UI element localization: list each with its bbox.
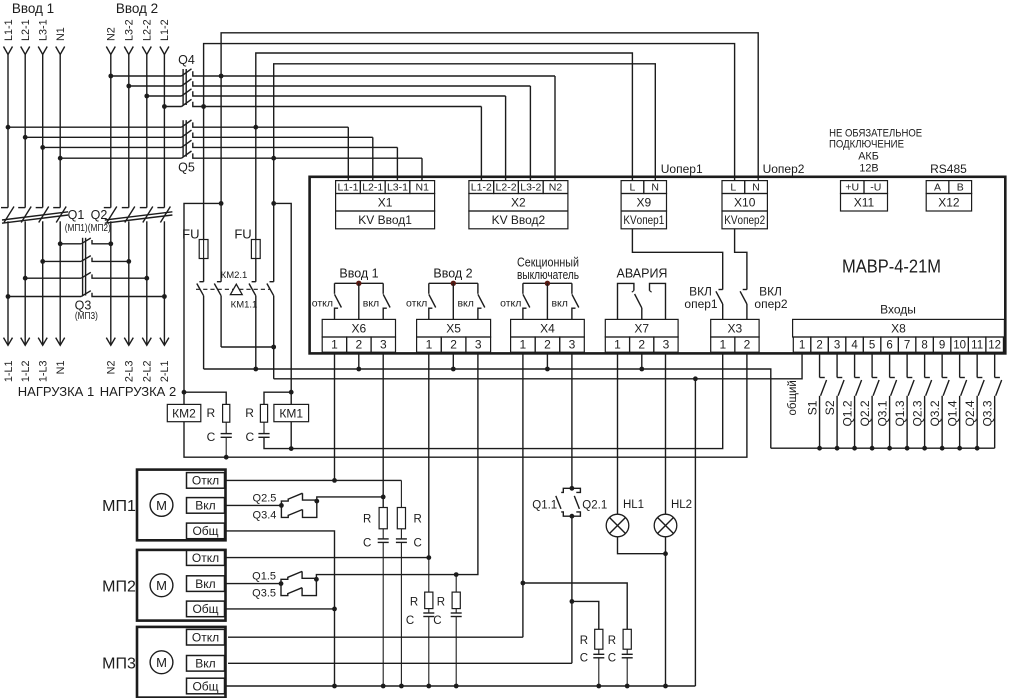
svg-text:Откл: Откл	[192, 551, 219, 565]
switch group top bar	[335, 282, 384, 284]
svg-text:1: 1	[719, 337, 726, 351]
svg-text:C: C	[406, 615, 414, 627]
wire Q2.5 output to X6-3	[317, 497, 383, 501]
terminal X7	[605, 319, 678, 337]
switch Q5 pole 2	[25, 136, 181, 138]
svg-text:KVопер1: KVопер1	[623, 213, 664, 227]
wire KM1.1b down to common	[273, 296, 275, 379]
svg-text:выключатель: выключатель	[517, 268, 579, 282]
terminal X1 (KV Ввод1)	[336, 181, 361, 194]
contact ВКЛ опер1	[722, 289, 724, 291]
load arrow 1-L3	[38, 338, 47, 346]
svg-text:C: C	[580, 653, 588, 665]
contact откл	[428, 283, 430, 294]
wire МП1 Вкл	[225, 504, 282, 506]
svg-text:Uопер1: Uопер1	[661, 162, 703, 176]
node KM1 coil top	[289, 390, 294, 395]
svg-text:R: R	[608, 635, 616, 647]
svg-text:М: М	[156, 578, 167, 593]
svg-text:Ввод 2: Ввод 2	[433, 267, 472, 281]
lamp HL2	[665, 353, 667, 514]
wire F branch to KM1 coil	[274, 203, 292, 392]
svg-text:11: 11	[971, 339, 983, 351]
terminal X2 (KV Ввод2)	[469, 181, 494, 194]
svg-text:R: R	[414, 514, 422, 526]
svg-text:HL1: HL1	[623, 499, 644, 511]
load arrow 2-L3	[124, 338, 133, 346]
switch Q4 gang bar	[182, 69, 184, 105]
svg-text:ПОДКЛЮЧЕНИЕ: ПОДКЛЮЧЕНИЕ	[829, 139, 904, 151]
motor symbol M (МП2)	[150, 574, 173, 597]
terminal X3	[711, 319, 759, 337]
wire Q4 row3 drop to X2	[505, 96, 507, 181]
terminal X8	[793, 319, 1005, 337]
svg-text:X3: X3	[728, 322, 743, 336]
svg-text:1: 1	[520, 337, 527, 351]
svg-text:АВАРИЯ: АВАРИЯ	[617, 267, 668, 281]
wire load feeder x=25.2	[24, 221, 26, 345]
feeder terminal arrow N1	[56, 47, 65, 55]
svg-text:S2: S2	[823, 400, 837, 415]
wire feeder N1 vertical	[59, 55, 61, 208]
svg-text:АКБ: АКБ	[858, 151, 879, 163]
wire load feeder x=110.8	[110, 221, 112, 345]
node switch common (red)	[545, 281, 550, 286]
svg-text:C: C	[245, 430, 254, 444]
feeder terminal arrow L1-1	[4, 47, 13, 55]
mechanical interlock dashed line	[196, 288, 270, 290]
svg-text:вкл: вкл	[457, 297, 473, 309]
svg-text:Uопер2: Uопер2	[763, 162, 805, 176]
terminal МП2 Вкл	[187, 576, 225, 592]
contact ВКЛ опер2	[746, 289, 748, 291]
wire X4-1 to МП3 Откл	[522, 353, 524, 637]
svg-text:5: 5	[869, 339, 875, 351]
switch Q3 pole 1	[60, 243, 81, 245]
svg-text:4: 4	[851, 339, 858, 351]
contact input Q1.2	[854, 353, 856, 377]
svg-text:X6: X6	[352, 322, 367, 336]
svg-text:Q1.4: Q1.4	[945, 400, 959, 426]
svg-text:КМ2: КМ2	[172, 406, 196, 420]
svg-text:2: 2	[450, 337, 457, 351]
wire МП2 Откл to X5-1	[225, 557, 429, 559]
svg-text:3: 3	[663, 337, 670, 351]
svg-text:1: 1	[426, 337, 433, 351]
wire C vertical (L1-1 to FU2)	[255, 127, 257, 239]
svg-text:KV Ввод1: KV Ввод1	[358, 213, 412, 227]
svg-text:2: 2	[816, 339, 822, 351]
switch Q3 gang bar	[82, 238, 84, 296]
terminal X9 (KVопер1)	[621, 181, 644, 194]
svg-text:2: 2	[744, 337, 751, 351]
node switch common (red)	[356, 281, 361, 286]
controller MAVR-4-21M outline	[310, 177, 1006, 354]
wire feeder N2 vertical	[110, 55, 112, 208]
load arrow N1	[56, 338, 65, 346]
svg-text:Q2.4: Q2.4	[963, 400, 977, 426]
svg-text:Ввод 2: Ввод 2	[116, 1, 158, 16]
wire Q1.5 output to X5-3	[316, 353, 478, 579]
svg-text:Q3.1: Q3.1	[875, 400, 889, 426]
svg-text:Q1.5: Q1.5	[252, 571, 276, 583]
node N1 tap to Q5 row4	[58, 156, 63, 161]
wire МП2 Общ	[225, 608, 335, 610]
svg-text:3: 3	[475, 337, 482, 351]
wire input common bus	[771, 447, 995, 449]
wire KM2.1a to control bus	[203, 296, 205, 369]
svg-text:L: L	[630, 181, 636, 193]
svg-text:12: 12	[988, 339, 1001, 351]
svg-text:1: 1	[614, 337, 621, 351]
wire D vertical (N1 to KM1.1b)	[273, 158, 275, 203]
svg-text:X1: X1	[378, 196, 393, 210]
node L2-2 tap to Q4 row3	[144, 94, 149, 99]
svg-text:Q3.3: Q3.3	[980, 400, 994, 426]
wire KM1 R branch	[264, 392, 291, 404]
wire Q5 row3 drop to X1	[396, 147, 398, 180]
switch Q5 gang bar	[182, 120, 184, 157]
node L3-2 tap to Q4 row2	[126, 84, 131, 89]
svg-text:B: B	[957, 181, 964, 193]
terminal МП3 Откл	[187, 629, 225, 645]
svg-text:X8: X8	[891, 322, 906, 336]
svg-text:N1: N1	[55, 361, 67, 375]
motor drive block МП2	[137, 550, 226, 621]
node X4-2 on supply bus	[545, 367, 550, 372]
feeder terminal arrow L1-2	[160, 47, 169, 55]
wire Q4 row1 drop to X2	[554, 76, 556, 181]
wire X4-3 to Q1.1/Q2.1	[571, 353, 573, 488]
svg-text:N1: N1	[416, 181, 430, 193]
terminal X12 (RS485)	[926, 181, 949, 194]
svg-text:12В: 12В	[859, 162, 878, 174]
svg-text:МП1: МП1	[102, 498, 136, 515]
contact KM2.1 pole 2	[220, 281, 222, 283]
wire feeder L1-1 vertical	[7, 55, 9, 208]
terminal МП3 Вкл	[187, 656, 225, 672]
svg-text:X7: X7	[634, 322, 649, 336]
motor drive block МП3	[137, 627, 226, 698]
svg-text:Q3.4: Q3.4	[253, 509, 277, 521]
contact input S2	[836, 353, 838, 377]
mechanical interlock triangle	[230, 284, 242, 294]
contact АВАРИЯ changeover	[618, 283, 634, 319]
wire Q5 row2 drop to X1	[372, 137, 374, 180]
svg-text:N2: N2	[549, 181, 563, 193]
svg-text:10: 10	[953, 339, 966, 351]
node B branch to KM2 coil	[219, 201, 224, 206]
node L2-1 tap to Q5 row2	[23, 135, 28, 140]
wire Q5 row1 drop to X1	[347, 127, 349, 180]
wire bus L1-2 to X10-L	[204, 44, 735, 181]
wire МП1 Откл to X6-1	[225, 479, 402, 481]
wire KM1.1a to control bus	[255, 296, 257, 369]
node X6-2 on supply bus	[356, 367, 361, 372]
svg-text:KV Ввод2: KV Ввод2	[492, 213, 546, 227]
breaker Q1 poles	[1, 207, 8, 209]
resistor R (Q contact snubber 2)	[523, 583, 627, 629]
contact откл	[334, 283, 336, 294]
svg-text:L2-2: L2-2	[142, 19, 154, 41]
node L3-1 tap to Q5 row3	[40, 145, 45, 150]
svg-text:Q1.3: Q1.3	[893, 400, 907, 426]
switch group top bar	[523, 282, 572, 284]
wire Q1.1 bottom down	[571, 516, 573, 663]
node Q5 row4 to wire D	[271, 156, 276, 161]
svg-text:откл: откл	[500, 297, 521, 309]
svg-text:Q4: Q4	[178, 53, 195, 67]
svg-text:L1-1: L1-1	[3, 19, 15, 41]
breaker Q2 poles	[104, 207, 111, 209]
svg-text:Q1.2: Q1.2	[840, 400, 854, 426]
svg-text:L1-2: L1-2	[159, 19, 171, 41]
svg-text:МАВР-4-21М: МАВР-4-21М	[842, 256, 941, 277]
wire A vertical (L1-2 phase to FU1)	[203, 107, 205, 240]
svg-text:KVопер2: KVопер2	[724, 213, 765, 227]
svg-text:2-L1: 2-L1	[159, 361, 171, 383]
svg-text:L3-2: L3-2	[520, 181, 541, 193]
wire control supply bus	[204, 369, 771, 448]
contact KM1.1 pole 1	[255, 281, 257, 283]
svg-text:N2: N2	[106, 361, 118, 375]
svg-text:2: 2	[356, 337, 363, 351]
svg-text:3: 3	[380, 337, 387, 351]
svg-text:X2: X2	[511, 196, 526, 210]
switch Q3 pole 2	[43, 260, 81, 262]
node KM2 coil top	[182, 390, 187, 395]
svg-text:Вкл: Вкл	[195, 657, 215, 671]
coil KM1	[274, 404, 309, 421]
wire МП1 Общ chain	[226, 531, 335, 686]
switch Q4 pole 2	[129, 85, 182, 87]
wire B vertical (N2 to KM2.1b)	[220, 76, 222, 203]
contact input Q2.4	[976, 353, 978, 377]
node Q snubber branch	[570, 599, 575, 604]
svg-text:L2-2: L2-2	[496, 181, 517, 193]
switch Q4 pole 3	[147, 95, 182, 97]
coil KM2	[167, 404, 201, 421]
switch Q4 pole 4	[164, 106, 181, 108]
svg-text:Q2.3: Q2.3	[910, 400, 924, 426]
svg-text:N1: N1	[55, 27, 67, 41]
svg-text:X5: X5	[446, 322, 461, 336]
svg-text:1: 1	[799, 339, 805, 351]
contact вкл	[477, 283, 479, 294]
node X7-2 on supply bus	[639, 367, 644, 372]
svg-text:R: R	[410, 597, 418, 609]
wire HL2 bottom to bus	[665, 537, 667, 686]
svg-text:RS485: RS485	[930, 162, 967, 176]
svg-text:3: 3	[569, 337, 576, 351]
svg-text:R: R	[580, 635, 588, 647]
svg-text:L1-2: L1-2	[471, 181, 492, 193]
node X4-1 snubber branch	[521, 581, 526, 586]
node L1-2 tap to Q4 row4	[162, 104, 167, 109]
svg-text:+U: +U	[845, 181, 859, 193]
svg-text:A: A	[934, 181, 941, 193]
contact вкл	[382, 283, 384, 294]
svg-text:Общ: Общ	[192, 524, 218, 538]
svg-text:L3-2: L3-2	[124, 19, 136, 41]
svg-text:Q1.1: Q1.1	[532, 500, 557, 512]
svg-text:Q2.2: Q2.2	[858, 400, 872, 426]
switch Q2.5/Q3.4	[279, 503, 284, 508]
svg-text:FU: FU	[234, 227, 251, 242]
svg-text:2: 2	[544, 337, 551, 351]
svg-text:C: C	[433, 615, 441, 627]
svg-text:N2: N2	[106, 27, 118, 41]
svg-text:КМ2.1: КМ2.1	[221, 270, 248, 281]
contact input Q1.3	[906, 353, 908, 377]
svg-text:R: R	[206, 406, 215, 420]
svg-text:1-L3: 1-L3	[38, 361, 50, 383]
contact input Q2.3	[924, 353, 926, 377]
svg-text:1: 1	[331, 337, 338, 351]
wire B joins D	[221, 346, 274, 348]
svg-text:L1-1: L1-1	[337, 181, 358, 193]
contact input Q2.2	[871, 353, 873, 377]
svg-text:откл: откл	[406, 297, 427, 309]
svg-text:7: 7	[904, 339, 910, 351]
svg-text:R: R	[245, 406, 254, 420]
svg-text:Откл: Откл	[192, 474, 219, 488]
wire feeder L2-2 vertical	[146, 55, 148, 208]
terminal МП2 Общ	[187, 601, 225, 617]
node Q4 row4 to wire A	[201, 104, 206, 109]
svg-text:КМ1.1: КМ1.1	[231, 299, 258, 310]
svg-text:L3-1: L3-1	[38, 19, 50, 41]
wire Q4 row4 drop to X2	[480, 107, 482, 181]
switch Q4 pole 1	[111, 75, 182, 77]
node KM1 coil bottom	[289, 446, 294, 451]
svg-text:М: М	[156, 655, 167, 670]
svg-text:3: 3	[834, 339, 840, 351]
wire feeder L3-1 vertical	[42, 55, 44, 208]
svg-text:N: N	[651, 181, 659, 193]
svg-text:Общ: Общ	[192, 679, 218, 693]
svg-text:2-L2: 2-L2	[142, 361, 154, 383]
switch Q3 pole 3	[25, 277, 81, 279]
svg-text:X4: X4	[540, 322, 555, 336]
svg-text:(МП3): (МП3)	[75, 311, 98, 322]
wire load feeder x=146.8	[146, 221, 148, 345]
node Q4 row1 to wire B	[219, 74, 224, 79]
wire load feeder x=8	[7, 221, 9, 345]
contact input Q3.1	[889, 353, 891, 377]
wire Q4 row2 drop to X2	[529, 86, 531, 181]
svg-text:Q3.5: Q3.5	[252, 588, 276, 600]
wire bus L1-1 to X9-L	[256, 53, 633, 181]
wire bus N1 to X9-N	[274, 64, 656, 181]
svg-text:R: R	[437, 597, 445, 609]
svg-text:R: R	[363, 514, 371, 526]
svg-text:Ввод 1: Ввод 1	[339, 267, 378, 281]
terminal МП1 Откл	[187, 473, 225, 489]
wire МП2 Вкл	[225, 583, 282, 585]
switch group top bar	[429, 282, 478, 284]
svg-text:C: C	[608, 653, 616, 665]
svg-text:1-L2: 1-L2	[20, 361, 32, 383]
svg-text:L2-1: L2-1	[20, 19, 32, 41]
node N2 tap to Q4 row1	[108, 74, 113, 79]
svg-text:Входы: Входы	[880, 303, 916, 317]
svg-text:Q2.1: Q2.1	[582, 500, 607, 512]
svg-text:X11: X11	[854, 196, 875, 210]
wire load feeder x=164.4	[163, 221, 165, 345]
svg-text:НАГРУЗКА 1: НАГРУЗКА 1	[18, 384, 94, 399]
wire feeder L1-2 vertical	[163, 55, 165, 208]
wire KVопер1 to ВКЛ опер1	[632, 229, 722, 290]
terminal X11 (АКБ)	[841, 181, 865, 194]
svg-text:X10: X10	[734, 196, 756, 210]
svg-text:откл: откл	[312, 297, 333, 309]
load arrow 1-L2	[21, 338, 30, 346]
svg-text:6: 6	[886, 339, 892, 351]
wire common drop to bottom bus	[694, 379, 696, 686]
node switch common (red)	[451, 281, 456, 286]
contact input S1	[819, 353, 821, 377]
svg-text:М: М	[156, 498, 167, 513]
wire X6-3 chain with snubber	[382, 353, 384, 507]
svg-text:Вкл: Вкл	[195, 577, 215, 591]
resistor R (Q contact snubber 1)	[572, 601, 599, 629]
load arrow N2	[106, 338, 115, 346]
svg-text:2-L3: 2-L3	[124, 361, 136, 383]
svg-text:Q2.5: Q2.5	[253, 492, 277, 504]
wire load feeder x=42.7	[42, 221, 44, 345]
wire load feeder x=60.2	[59, 221, 61, 345]
node common bus to lamps branch	[693, 376, 698, 381]
wire KVопер2 to ВКЛ опер2	[735, 229, 747, 290]
svg-text:-U: -U	[870, 181, 881, 193]
svg-text:1-L1: 1-L1	[3, 361, 15, 383]
wire feeder L3-2 vertical	[128, 55, 130, 208]
wire KM2 bottom to X3-2	[184, 353, 747, 457]
svg-text:X9: X9	[636, 196, 651, 210]
svg-text:C: C	[414, 538, 422, 550]
feeder terminal arrow L2-1	[21, 47, 30, 55]
contact откл	[522, 283, 524, 294]
switch Q5 pole 4	[60, 157, 181, 159]
svg-text:Вкл: Вкл	[195, 499, 215, 513]
svg-text:(МП2): (МП2)	[88, 223, 111, 234]
svg-text:L: L	[730, 181, 736, 193]
contact input Q3.2	[941, 353, 943, 377]
svg-text:L2-1: L2-1	[362, 181, 383, 193]
svg-text:вкл: вкл	[363, 297, 379, 309]
wire МП3 Откл	[228, 636, 523, 638]
wire HL1 bottom	[618, 537, 666, 554]
svg-text:МП3: МП3	[102, 655, 136, 672]
lamp HL1	[617, 353, 619, 514]
node Q5 row1 to wire C	[253, 125, 258, 130]
svg-text:C: C	[207, 430, 216, 444]
contact KM2.1 pole 1	[203, 281, 205, 283]
node D branch to KM1 coil	[271, 201, 276, 206]
svg-text:Откл: Откл	[192, 631, 219, 645]
resistor R (МП1 snubber 2)	[400, 480, 402, 507]
contact вкл	[571, 283, 573, 294]
wire E branch to KM2 coil	[184, 203, 221, 392]
contact input Q3.3	[994, 353, 996, 377]
load arrow 2-L2	[142, 338, 151, 346]
resistor R (МП2 snubber 2)	[455, 575, 457, 593]
svg-text:Q1: Q1	[68, 208, 85, 222]
svg-text:опер2: опер2	[754, 297, 788, 311]
switch Q5 pole 3	[43, 146, 182, 148]
switch Q1.5/Q3.5	[279, 581, 284, 586]
